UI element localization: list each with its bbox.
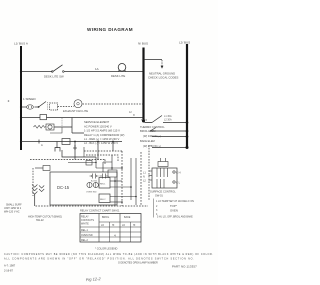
lamp oven indicator 1 <box>87 182 92 187</box>
svg-text:ALL COMPONENTS ARE SHOWN IN "O: ALL COMPONENTS ARE SHOWN IN "OFF" OR "RE… <box>4 257 194 260</box>
contact symbols right of block <box>173 171 181 185</box>
wire harness horizontal connect 1 <box>110 180 122 182</box>
svg-text:EXHAUST FAN LITE: EXHAUST FAN LITE <box>63 109 88 113</box>
svg-text:WH-120 V AC: WH-120 V AC <box>4 211 20 214</box>
svg-text:1A: 1A <box>95 67 99 71</box>
wire bus L1 (left vertical bus) <box>20 46 22 150</box>
label part number <box>172 265 197 269</box>
connector J1 receptacle <box>27 105 34 109</box>
node X junction mark near N bus <box>129 111 135 117</box>
svg-text:REL-1: REL-1 <box>81 229 88 232</box>
svg-text:x: x <box>133 113 135 117</box>
node junction dots on L2 bus <box>186 121 189 149</box>
svg-text:DC-15: DC-15 <box>57 185 70 190</box>
svg-text:OVEN IND: OVEN IND <box>86 192 97 194</box>
wire defrost row left <box>21 117 40 119</box>
svg-text:RELAY 1 (A) COMPRESSOR (W): RELAY 1 (A) COMPRESSOR (W) <box>84 133 124 137</box>
label small surface unit <box>4 204 22 214</box>
svg-text:N/ BUS: N/ BUS <box>138 42 148 46</box>
lamp DS1 desk lite <box>111 64 126 78</box>
label broil rating <box>143 134 161 138</box>
svg-text:REL1: REL1 <box>100 184 106 186</box>
svg-text:C L: C L <box>176 181 181 185</box>
svg-text:DESK LITE SW: DESK LITE SW <box>44 75 64 79</box>
svg-text:REL-2: REL-2 <box>81 239 88 242</box>
svg-text:DESK LITE: DESK LITE <box>111 74 125 78</box>
switch contact hooks below feeder <box>55 145 77 152</box>
wire broil row <box>150 128 187 132</box>
switch thermo control row <box>141 115 187 123</box>
label 1 speed fan <box>23 97 37 101</box>
svg-text:5 HI, LO, OFF, BROIL AND BAKE: 5 HI, LO, OFF, BROIL AND BAKE <box>157 215 193 218</box>
wire drop mid <box>74 142 76 160</box>
switch S1 desk lite sw <box>44 65 64 79</box>
wire main lower feeder <box>20 140 122 142</box>
svg-text:TOP*: TOP* <box>170 204 178 208</box>
label color legend <box>95 247 117 251</box>
svg-text:SERVICE ELEMENT: SERVICE ELEMENT <box>84 120 110 124</box>
svg-text:LO: LO <box>101 225 104 227</box>
label surface control sw-01 <box>150 190 176 198</box>
wire vertical harness 3 <box>135 158 137 205</box>
wire harness horizontal connect 2 <box>110 186 132 188</box>
wire dashed fan to N bus <box>83 103 144 105</box>
svg-text:BAKE: BAKE <box>124 216 131 219</box>
label date code left <box>4 264 16 273</box>
label service element text block <box>84 120 124 145</box>
node N BUS label <box>138 42 148 46</box>
wire vertical harness 4 dashed <box>140 152 142 206</box>
relay K2 box on feeder <box>62 139 70 145</box>
svg-text:WHITE: WHITE <box>81 223 89 226</box>
label bake elem <box>140 139 155 143</box>
wire dashed oven enclosure corner <box>84 147 122 161</box>
svg-text:1-1/2 HP 3.5 AMPS (W) 115 V: 1-1/2 HP 3.5 AMPS (W) 115 V <box>84 129 120 133</box>
svg-text:L2/ BUS: L2/ BUS <box>179 41 190 45</box>
label footnote line 3 <box>118 262 158 265</box>
svg-text:SW-01: SW-01 <box>155 194 163 198</box>
wire elbow to harness <box>62 150 96 157</box>
svg-text:2-16-87: 2-16-87 <box>4 269 13 273</box>
svg-text:A1 B2: A1 B2 <box>91 180 98 183</box>
lamp oven indicator 2 <box>86 182 98 193</box>
wire dashed right enclosure edge <box>148 145 150 200</box>
wire coil drop <box>34 194 36 206</box>
resistor surface element coil left <box>32 185 37 195</box>
relay REL-2 box <box>99 194 110 203</box>
resistor heating coil zigzag <box>34 125 46 128</box>
wire inner oven drop <box>103 155 112 172</box>
svg-text:OVEN IND: OVEN IND <box>81 234 93 237</box>
switch relay contact pair B <box>91 174 109 183</box>
label 1A fuse rating <box>95 67 99 71</box>
wire pin stubs into block <box>149 171 153 180</box>
wire dashed to fan motor <box>58 106 73 108</box>
svg-text:SURFACE CONTROL: SURFACE CONTROL <box>150 190 176 194</box>
wire drop far right <box>112 142 114 152</box>
svg-text:C H: C H <box>176 171 181 175</box>
node terminal dots row <box>95 162 112 169</box>
table relay contact chart <box>80 214 141 243</box>
node junction dots on feeder <box>74 141 114 143</box>
connector upper pigtail <box>158 158 168 167</box>
svg-text:CHECK LOCAL CODES: CHECK LOCAL CODES <box>148 76 178 80</box>
ground neutral ground arrow <box>148 60 178 80</box>
wire harness horizontal connect 3 <box>110 196 137 198</box>
relay REL-1 box <box>99 178 110 189</box>
relay DC-15 box <box>50 172 117 205</box>
wire dashed left enclosure edge <box>32 168 34 196</box>
svg-text:L1 - RED (+) = 1250 W 230 V: L1 - RED (+) = 1250 W 230 V <box>84 137 119 141</box>
svg-text:N: N <box>143 176 145 179</box>
svg-text:REL2: REL2 <box>100 199 106 201</box>
wire harness horizontal connect 4 <box>110 201 123 203</box>
label numbered legend list <box>154 199 195 219</box>
svg-text:* COLOR LEGEND: * COLOR LEGEND <box>95 247 117 251</box>
node L1 BUS A label <box>14 42 28 46</box>
svg-text:1 LO TEMP SET AT 140 DEG F ON: 1 LO TEMP SET AT 140 DEG F ON <box>156 200 194 203</box>
label L1 N L2 pins <box>143 172 146 183</box>
svg-text:SW-22: SW-22 <box>36 219 44 222</box>
wire bus N (middle vertical bus) <box>142 48 144 123</box>
wire vertical harness 2 <box>130 158 132 200</box>
label footnote line 2 <box>4 257 194 260</box>
svg-text:HI: HI <box>133 225 136 227</box>
wire bus L2 (right vertical bus) <box>186 44 188 148</box>
title WIRING DIAGRAM <box>87 27 133 32</box>
svg-text:HIGH TEMP CUTOUT (BAKE): HIGH TEMP CUTOUT (BAKE) <box>28 216 62 219</box>
wire vertical harness 0 <box>114 177 116 205</box>
label bake rating <box>143 144 161 148</box>
node N bus foot blob <box>142 120 145 123</box>
relay inner oven box <box>108 170 117 177</box>
wire neutral ground stub <box>144 59 163 61</box>
wire dashed distribution line <box>30 160 105 166</box>
node tick A on feeder <box>39 140 43 148</box>
wire desk-lite circuit left segment <box>21 71 52 73</box>
svg-text:LO: LO <box>122 225 125 227</box>
wire bus L2 foot row <box>152 147 187 149</box>
capacitor box dashed component <box>50 103 58 110</box>
node junction dots on L1 bus <box>20 70 22 118</box>
table relay contact chart title <box>80 209 120 213</box>
connector small box above DC-15 <box>35 166 50 171</box>
svg-text:PART NO.113357: PART NO.113357 <box>172 265 197 269</box>
switch S2 fan switch blade <box>38 102 48 111</box>
svg-text:O DENOTES OPEN LAMP NUMBER: O DENOTES OPEN LAMP NUMBER <box>118 262 158 265</box>
motor M1 boxed circle <box>46 124 54 130</box>
wire desk-lite circuit right segment <box>64 71 143 73</box>
wire drop to timer box <box>56 142 58 149</box>
svg-text:BROIL: BROIL <box>102 216 110 219</box>
motor B1 exhaust fan <box>63 100 88 113</box>
svg-text:HI: HI <box>112 225 115 227</box>
svg-text:L1/ BUS A: L1/ BUS A <box>14 42 28 46</box>
svg-text:WIRING DIAGRAM: WIRING DIAGRAM <box>87 27 133 32</box>
svg-text:BAKE ELEM: BAKE ELEM <box>140 139 155 143</box>
svg-text:(W) 3400 W (+): (W) 3400 W (+) <box>143 134 161 138</box>
svg-text:A: A <box>41 143 43 147</box>
svg-text:1 SPEED: 1 SPEED <box>23 97 37 101</box>
svg-text:THERMO CONTROL: THERMO CONTROL <box>140 125 165 129</box>
wire low row <box>68 157 123 169</box>
wire dashed bottom enclosure line <box>36 205 149 207</box>
label figure number <box>86 276 102 282</box>
wire bake row <box>152 136 187 138</box>
wire defrost row to N bus <box>47 117 144 119</box>
label footnote line 1 <box>4 253 213 256</box>
label broil elem <box>140 129 155 133</box>
connector box on low row <box>86 161 92 166</box>
speck artifact left margin <box>8 100 10 102</box>
switch surface control block <box>152 168 177 188</box>
node L2 BUS label <box>179 41 190 45</box>
label thermo control <box>140 125 165 129</box>
switch relay contact pair A <box>90 174 99 179</box>
svg-text:RELAY CONTACT CHART SW-01: RELAY CONTACT CHART SW-01 <box>80 209 120 213</box>
wire drop right <box>97 142 99 161</box>
wire motor to elbow <box>50 118 84 134</box>
svg-text:A-7: 1987: A-7: 1987 <box>4 264 16 268</box>
svg-text:AC POWER 120/240 V: AC POWER 120/240 V <box>84 124 112 128</box>
wire receptacle to fan switch <box>21 106 39 108</box>
svg-text:OVEN: OVEN <box>170 209 178 213</box>
label high temp cutout <box>28 216 62 223</box>
svg-text:CAUTION: COMPONENTS MAY BE WIR: CAUTION: COMPONENTS MAY BE WIRED (NO THI… <box>4 253 213 256</box>
wire vertical harness 1 dashed <box>121 151 123 206</box>
svg-text:L2 30A: L2 30A <box>164 119 172 122</box>
resistor surface element coil right <box>39 186 44 192</box>
relay K1 small box <box>40 115 47 120</box>
